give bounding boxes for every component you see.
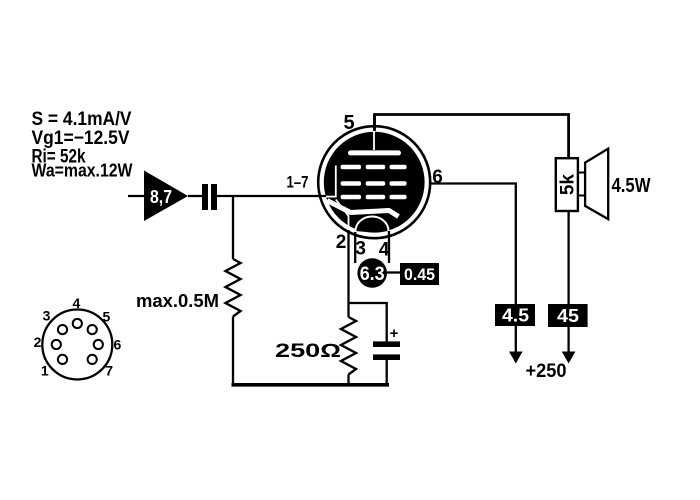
- wire transformer to arrow: [567, 211, 569, 352]
- wire cathode to bypass capacitor: [349, 303, 387, 342]
- wire 6.3 to 0.45: [387, 271, 402, 273]
- socket pin holes: [52, 319, 103, 364]
- svg-text:Wa=max.12W: Wa=max.12W: [32, 160, 133, 180]
- wire input stub: [128, 195, 146, 197]
- tube V1 envelope ring: [318, 126, 430, 238]
- heater wire pin 3: [354, 232, 356, 263]
- grid row 1: [341, 165, 407, 170]
- speaker stubs: [578, 173, 586, 196]
- svg-text:1: 1: [41, 363, 49, 379]
- heater current box 0.45: [400, 263, 439, 285]
- grid row 3: [341, 195, 407, 200]
- speaker cone: [585, 149, 608, 219]
- svg-text:7: 7: [105, 363, 113, 379]
- output transformer 5k: [556, 158, 578, 211]
- svg-text:1–7: 1–7: [287, 173, 309, 192]
- svg-text:4: 4: [73, 295, 81, 311]
- svg-text:2: 2: [34, 334, 42, 350]
- arrow down left: [509, 352, 523, 364]
- screen wire pin 6: [431, 184, 516, 353]
- ground bus wire: [232, 383, 390, 387]
- svg-text:250Ω: 250Ω: [275, 341, 341, 362]
- anode top wire: [375, 115, 569, 159]
- heater wire pin 4: [388, 231, 390, 263]
- arrow down right: [562, 352, 576, 364]
- svg-text:5: 5: [343, 112, 354, 134]
- anode plate bar: [348, 150, 401, 155]
- svg-text:5: 5: [103, 309, 111, 325]
- voltage box 45: [548, 304, 588, 327]
- svg-text:5k: 5k: [558, 174, 579, 196]
- grid lead inside tube: [326, 166, 337, 198]
- cathode dome: [356, 217, 389, 233]
- svg-text:8,7: 8,7: [150, 187, 172, 207]
- svg-text:+250: +250: [526, 361, 567, 382]
- tube inner electrode disc: [324, 132, 425, 233]
- svg-text:+: +: [390, 325, 399, 342]
- resistor 250ohm: [341, 317, 356, 375]
- coupling capacitor C1: [202, 184, 217, 210]
- svg-text:6: 6: [432, 167, 443, 188]
- svg-text:3: 3: [43, 308, 51, 324]
- anode lead: [373, 115, 376, 151]
- source triangle 8,7: [144, 171, 188, 222]
- wire grid-leak branch: [232, 196, 234, 259]
- svg-text:4.5: 4.5: [502, 306, 529, 326]
- grid row 2: [341, 181, 407, 186]
- filament chevron: [327, 201, 399, 217]
- svg-text:3: 3: [355, 239, 366, 260]
- cathode lead inside tube: [336, 200, 349, 232]
- svg-text:2: 2: [336, 232, 347, 253]
- svg-text:max.0.5M: max.0.5M: [136, 291, 219, 311]
- svg-text:45: 45: [557, 306, 579, 326]
- bypass capacitor electrolytic: [373, 341, 400, 385]
- voltage box 4.5: [495, 304, 535, 326]
- svg-text:6: 6: [114, 337, 122, 353]
- svg-text:0.45: 0.45: [404, 265, 435, 284]
- svg-text:6.3: 6.3: [360, 264, 385, 285]
- wire triangle to capacitor: [188, 195, 203, 197]
- cathode wire pin 2: [347, 230, 349, 317]
- socket outline: [42, 310, 112, 380]
- wire resistor to ground bus: [232, 317, 234, 386]
- svg-text:4.5W: 4.5W: [612, 175, 651, 197]
- wire resistor to bus: [347, 375, 349, 386]
- tube data text: [32, 109, 133, 180]
- socket pin numbers: [34, 295, 122, 379]
- wire capacitor to tube grid: [217, 195, 327, 197]
- heater voltage 6.3: [357, 258, 387, 288]
- resistor max.0.5M: [226, 259, 241, 317]
